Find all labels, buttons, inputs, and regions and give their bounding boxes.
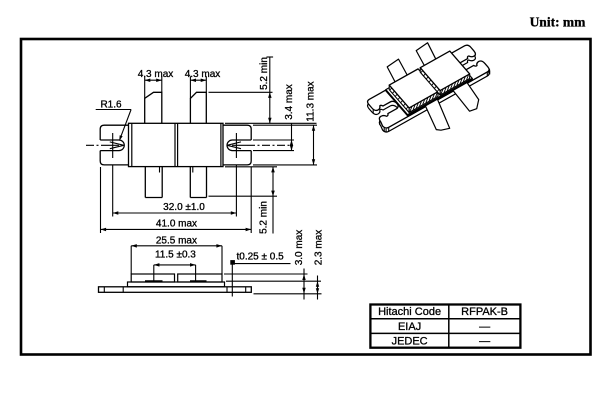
label 2.3 max: [314, 230, 325, 266]
dimension 4.3 max (lead 2): [190, 76, 206, 98]
svg-text:JEDEC: JEDEC: [392, 335, 428, 347]
label 3.4 max: [284, 84, 295, 120]
right screw center arrow: [227, 142, 247, 149]
label R1.6 with leader: [96, 100, 131, 141]
isometric cap 1 top face: [389, 69, 438, 108]
svg-text:t0.25 ± 0.5: t0.25 ± 0.5: [237, 252, 285, 263]
flange slot mark left: [103, 287, 105, 293]
label 41.0 max: [156, 219, 197, 230]
side view lead right (bold): [190, 280, 207, 282]
isometric base plate top face: [386, 53, 473, 114]
table cell JEDEC value: [479, 335, 490, 347]
table row divider 1: [370, 318, 520, 320]
side view flange bar: [99, 287, 252, 293]
svg-text:R1.6: R1.6: [100, 100, 122, 111]
label 5.2 min (top): [259, 57, 270, 90]
right tab screw slot: [227, 140, 251, 151]
label 11.3 max: [306, 81, 317, 121]
isometric cap 2 front face: [440, 74, 470, 95]
isometric cap 2 top face: [420, 51, 469, 90]
isometric flange front side face: [389, 72, 488, 131]
label 4.3 max (lead 2): [185, 69, 221, 80]
dimension 11.5 +/-0.3 (lead spacing): [154, 263, 196, 281]
right slot center mark: [235, 133, 237, 158]
svg-text:4.3 max: 4.3 max: [138, 69, 174, 80]
svg-text:—: —: [479, 321, 490, 333]
cap 1 left edge line: [131, 123, 133, 166]
dimension 41.0 max (overall length): [101, 167, 252, 233]
svg-text:—: —: [479, 335, 490, 347]
svg-text:3.4 max: 3.4 max: [284, 84, 295, 120]
dimension 32.0 +/-1.0 (slot centers): [113, 165, 237, 217]
svg-text:32.0 ±1.0: 32.0 ±1.0: [163, 202, 205, 213]
label 4.3 max (lead 1): [138, 69, 174, 80]
table cell RFPAK-B: [461, 306, 508, 318]
label 5.2 min (bottom): [259, 201, 270, 234]
flange slot mark right: [245, 287, 247, 293]
leader t0.25 lead thickness: [230, 260, 290, 296]
isometric cap 1 left face: [389, 85, 409, 112]
dimension 2.3 max (lead height): [226, 276, 321, 300]
svg-text:Hitachi Code: Hitachi Code: [378, 306, 441, 318]
isometric cap 2 left face: [420, 68, 440, 95]
isometric flange edge connectors: [373, 52, 490, 132]
label t0.25 dim: [237, 252, 285, 263]
svg-text:5.2 min: 5.2 min: [259, 57, 270, 90]
label 25.5 max: [156, 236, 197, 247]
isometric lower lead 1: [421, 95, 450, 130]
left tab screw slot: [100, 140, 124, 151]
isometric flange thickness outline: [363, 48, 491, 133]
table cell EIAJ value: [479, 321, 490, 333]
dimension 3.0 max (height): [224, 269, 322, 300]
drawing border frame: [21, 39, 591, 355]
label 11.5 dim: [155, 249, 196, 260]
svg-text:3.0 max: 3.0 max: [294, 230, 305, 266]
flange tab step left: [122, 287, 124, 293]
isometric cap 1 front face: [409, 92, 438, 113]
isometric base plate front face: [408, 78, 473, 116]
svg-text:4.3 max: 4.3 max: [185, 69, 221, 80]
left slot center mark: [112, 133, 114, 158]
label 3.0 max: [294, 230, 305, 266]
upper lead 1 outline: [145, 92, 162, 123]
dimension 25.5 max (base length): [131, 244, 222, 274]
cap 1 right edge line: [174, 123, 176, 166]
package code table frame: [370, 305, 520, 348]
right flange tab outline: [223, 125, 251, 165]
lower lead 4 outline: [190, 167, 206, 198]
isometric upper lead 2: [416, 43, 437, 70]
svg-text:EIAJ: EIAJ: [398, 321, 421, 333]
lead tip extension line: [209, 91, 273, 93]
left centerline (dash-dot): [86, 144, 109, 146]
upper lead 2 outline: [190, 92, 206, 123]
dimension 5.2 min (upper lead length): [267, 57, 274, 123]
left screw center arrow: [109, 142, 124, 149]
left flange tab outline: [100, 125, 128, 165]
table column divider: [448, 305, 450, 348]
table cell Hitachi Code: [378, 306, 441, 318]
unit label: [530, 15, 587, 30]
svg-text:5.2 min: 5.2 min: [259, 201, 270, 234]
svg-text:11.3 max: 11.3 max: [306, 81, 317, 121]
body top extension line: [225, 122, 317, 124]
isometric flange top face with fork ends: [363, 44, 491, 129]
side view base plate: [128, 282, 225, 287]
isometric upper lead 1: [387, 59, 409, 86]
isometric base plate left face: [386, 90, 408, 116]
isometric lower lead 2: [448, 79, 479, 111]
cap 2 left edge line: [177, 123, 179, 166]
table row divider 2: [370, 332, 520, 334]
dimension 4.3 max (lead 1): [145, 76, 162, 98]
svg-text:2.3 max: 2.3 max: [314, 230, 325, 266]
lower lead 3 outline: [145, 167, 162, 198]
label 32.0 dim: [163, 202, 205, 213]
flange tab step right: [226, 287, 228, 293]
dimension 5.2 min (lower lead length): [209, 167, 278, 234]
side view lead left (bold): [145, 280, 163, 282]
package body outline (top view): [129, 123, 224, 166]
svg-text:Unit: mm: Unit: mm: [530, 15, 587, 30]
svg-text:11.5 ±0.3: 11.5 ±0.3: [155, 249, 196, 260]
dimension 11.3 max (package width): [253, 125, 317, 165]
dimension 3.4 max (slot width): [253, 123, 294, 150]
table cell EIAJ: [398, 321, 421, 333]
svg-text:25.5 max: 25.5 max: [156, 236, 197, 247]
table cell JEDEC: [392, 335, 428, 347]
cap 2 right edge line: [220, 123, 222, 166]
side view cap 2: [178, 274, 222, 282]
side view cap 1: [131, 274, 174, 282]
svg-text:41.0 max: 41.0 max: [156, 219, 197, 230]
right centerline (dash-dot): [247, 144, 290, 146]
svg-text:RFPAK-B: RFPAK-B: [461, 306, 508, 318]
